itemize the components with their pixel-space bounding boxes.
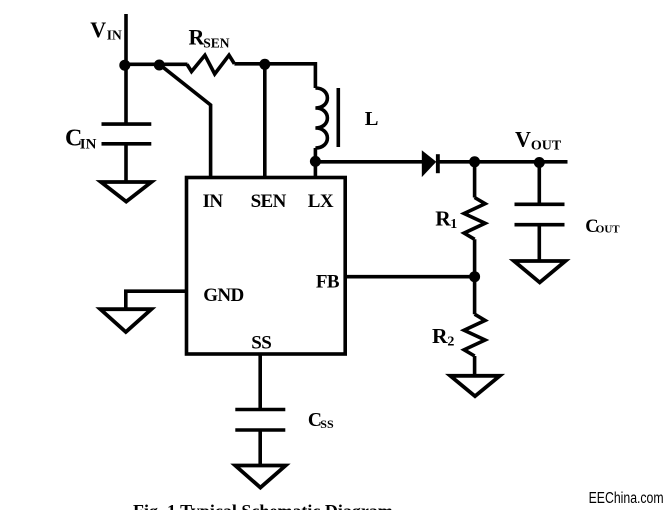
ground below R2 (450, 376, 500, 396)
node VIN-CIN junction (119, 60, 130, 71)
wire SS pin to CSS (258, 354, 262, 410)
wire diagonal VIN node to IN pin (159, 64, 210, 177)
svg-text:SS: SS (251, 332, 271, 353)
diode D1 cathode bar (436, 154, 440, 173)
resistor R2 (464, 314, 485, 356)
svg-text:Fig. 1 Typical Schematic Diagr: Fig. 1 Typical Schematic Diagram (133, 501, 393, 510)
wire VOUT rail down to COUT (537, 162, 541, 205)
svg-text:LX: LX (308, 191, 334, 212)
resistor RSEN (187, 55, 234, 74)
capacitor CIN plates (102, 124, 152, 144)
node R1 top junction (469, 156, 480, 167)
svg-text:R: R (432, 324, 448, 348)
ground below COUT (514, 261, 565, 282)
svg-text:EEChina.com: EEChina.com (589, 490, 664, 507)
svg-text:SS: SS (320, 417, 334, 431)
svg-text:V: V (515, 127, 531, 152)
wire COUT to ground (537, 225, 541, 261)
svg-text:IN: IN (80, 136, 97, 152)
diode D1 triangle (422, 150, 437, 177)
wire inductor to LX pin (314, 148, 318, 178)
svg-text:OUT: OUT (596, 224, 621, 236)
wire SEN pin (263, 64, 267, 177)
wire GND pin to ground (126, 291, 187, 309)
wire RSEN to corner and down to inductor (234, 64, 315, 88)
ground at GND pin (100, 309, 151, 332)
node LX-inductor junction (310, 156, 321, 167)
op-amp U1 IC box (187, 178, 346, 355)
capacitor CSS plates (235, 410, 285, 431)
svg-text:SEN: SEN (251, 191, 287, 212)
svg-text:R: R (435, 206, 451, 230)
node VIN-IN junction (154, 60, 165, 71)
svg-text:L: L (365, 108, 379, 130)
svg-text:OUT: OUT (531, 139, 562, 154)
node COUT junction (534, 157, 545, 168)
wire FB pin to divider node (345, 275, 474, 279)
wire CIN to ground (124, 144, 128, 182)
wire diode cathode to VOUT end (440, 160, 568, 164)
svg-text:V: V (90, 17, 106, 42)
wire output rail LX node to diode anode (315, 160, 422, 164)
svg-text:FB: FB (316, 272, 340, 293)
wire top rail from VIN node to RSEN (124, 63, 188, 67)
node FB divider junction (469, 271, 480, 282)
svg-text:IN: IN (203, 191, 224, 212)
svg-text:IN: IN (107, 28, 122, 43)
svg-text:2: 2 (447, 334, 454, 349)
wire VIN vertical lead down to CIN (124, 14, 128, 124)
svg-text:1: 1 (450, 217, 457, 232)
node SEN junction (259, 59, 270, 70)
wire R1 to FB node (473, 239, 477, 314)
wire R2 to ground (473, 356, 477, 376)
ground below CSS (235, 466, 285, 488)
wire VOUT rail down to R1 (473, 162, 477, 198)
svg-text:GND: GND (203, 285, 243, 306)
wire CSS to ground (258, 430, 262, 466)
svg-text:SEN: SEN (203, 36, 230, 51)
capacitor COUT plates (515, 204, 565, 224)
ground below CIN (101, 182, 151, 202)
resistor R1 (464, 198, 485, 240)
inductor L core bar (336, 88, 340, 147)
inductor L coil (315, 88, 327, 148)
